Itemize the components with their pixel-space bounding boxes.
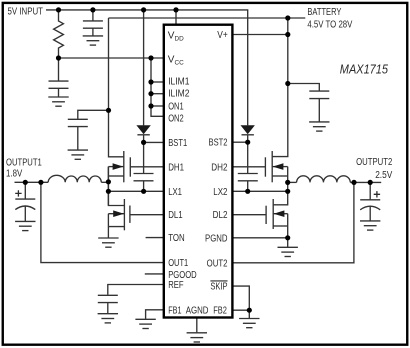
node output2/inductor junction xyxy=(285,180,290,185)
node LX1/BST1 cap junction xyxy=(141,189,146,194)
svg-text:OUT1: OUT1 xyxy=(168,258,188,269)
svg-text:4.5V TO 28V: 4.5V TO 28V xyxy=(307,19,352,30)
node LX2 junction xyxy=(285,189,290,194)
wire TON open stub xyxy=(146,237,164,239)
wire DH1 gate lead from DH1 pin xyxy=(130,166,163,168)
svg-text:DH2: DH2 xyxy=(211,162,228,173)
svg-text:LX2: LX2 xyxy=(213,187,228,198)
node 5V/diode D1 junction xyxy=(141,7,146,12)
node battery bypass C4 junction xyxy=(285,81,290,86)
wire REF pin to reference capacitor xyxy=(108,285,164,295)
wire LX2 column to inductor L2 xyxy=(288,181,297,183)
wire battery rail y=18 from DH1 drain column to battery label xyxy=(109,17,306,19)
wire DH2 gate lead from DH2 pin xyxy=(232,166,265,168)
ground (SKIP/FB2) xyxy=(239,319,259,328)
ground (output cap C7) xyxy=(360,221,380,230)
wire FB2 pin stub xyxy=(232,309,249,311)
svg-text:2.5V: 2.5V xyxy=(375,170,392,181)
svg-text:DL1: DL1 xyxy=(168,210,183,221)
svg-text:ILIM2: ILIM2 xyxy=(168,88,190,99)
svg-text:AGND: AGND xyxy=(186,306,209,317)
wire ILIM2 pin stub xyxy=(151,93,164,95)
capacitor C7 (output2, polarized) xyxy=(360,182,380,220)
wire OUT1 feedback from output node xyxy=(41,182,164,262)
node output1/inductor junction xyxy=(106,179,111,184)
node BST2 junction xyxy=(245,140,250,145)
node output2 cap junction xyxy=(368,180,373,185)
wire battery column down to DH2 drain elbow xyxy=(272,18,288,157)
wire DL1 gate lead from DL1 pin xyxy=(130,214,164,216)
diode D1 (BST1) xyxy=(136,125,150,142)
svg-text:BST1: BST1 xyxy=(168,138,187,149)
node 5V/resistor junction xyxy=(56,7,61,12)
node VCC/resistor junction xyxy=(56,55,61,60)
svg-text:ON1: ON1 xyxy=(168,102,184,113)
wire DH1 source to LX1/DL1 drain column xyxy=(107,167,109,206)
ground (output cap C6) xyxy=(15,221,35,230)
node V+ junction xyxy=(285,32,290,37)
wire BST2 pin stub xyxy=(232,141,248,143)
svg-text:ON2: ON2 xyxy=(168,114,184,125)
wire LX2 pin to switch node xyxy=(232,190,288,192)
ground (VCC bypass C2) xyxy=(48,97,68,106)
svg-text:OUT2: OUT2 xyxy=(207,258,228,269)
wire VCC from resistor bottom to VCC pin xyxy=(59,57,164,59)
node FB2/SKIP junction xyxy=(247,308,252,313)
wire FB2 node to ground xyxy=(248,310,250,318)
wire OUTPUT2 rail stub right of capacitor xyxy=(350,181,381,183)
inductor L1 xyxy=(48,175,101,182)
transistor Q4 DL2 n-channel MOSFET xyxy=(266,199,288,247)
wire V+ pin to battery column xyxy=(232,34,288,36)
capacitor C5 (REF bypass) xyxy=(98,295,118,313)
wire SKIP pin down to FB2 node xyxy=(232,286,249,310)
inductor L2 xyxy=(297,176,351,183)
wire VDD drop from 5V rail into IC top xyxy=(175,10,177,25)
svg-text:DL2: DL2 xyxy=(213,210,228,221)
svg-text:TON: TON xyxy=(168,233,185,244)
node PGND junction xyxy=(285,235,290,240)
wire inductor L1 to LX1 column xyxy=(101,181,108,183)
capacitor C4 (battery bypass right) xyxy=(288,84,330,122)
wire DL2 gate lead from DL2 pin xyxy=(232,214,266,216)
ground (battery bypass C3) xyxy=(68,150,88,159)
node BST1 junction xyxy=(141,140,146,145)
svg-text:SKIP: SKIP xyxy=(210,282,227,293)
ground (AGND) xyxy=(187,333,207,342)
ground (5V bypass C1) xyxy=(83,36,103,45)
svg-text:BATTERY: BATTERY xyxy=(307,7,341,18)
wire DH1 drain column down from battery rail xyxy=(109,18,124,157)
node battery rail junction xyxy=(285,15,290,20)
node LX2/BST2 cap junction xyxy=(245,189,250,194)
wire ILIM1 pin stub xyxy=(151,81,164,83)
arrow body diode Q1 xyxy=(113,163,124,170)
node output1 feedback junction xyxy=(38,180,43,185)
wire ON1 pin stub xyxy=(151,105,164,107)
wire PGOOD open stub xyxy=(145,273,164,275)
transistor Q2 DL1 n-channel MOSFET xyxy=(108,199,129,238)
svg-text:FB1: FB1 xyxy=(168,306,182,317)
text labels outside IC xyxy=(6,6,393,197)
capacitor C1 (5V bypass at top) xyxy=(83,10,103,36)
arrow body diode Q2 xyxy=(113,210,124,217)
svg-text:OUTPUT2: OUTPUT2 xyxy=(356,157,393,168)
wire OUTPUT1 rail with inductor L1 xyxy=(15,181,49,183)
svg-text:1.8V: 1.8V xyxy=(6,169,22,180)
capacitor C7 plus sign xyxy=(374,191,380,197)
wire BST1 pin stub xyxy=(144,141,164,143)
node ILIM2 junction xyxy=(148,91,153,96)
capacitor C3 (battery bypass left) xyxy=(68,110,109,150)
diode D2 (BST2) xyxy=(241,125,255,142)
node LX1 junction xyxy=(106,189,111,194)
svg-text:BST2: BST2 xyxy=(209,138,228,149)
capacitor C2 (VCC bypass) xyxy=(49,58,69,97)
wire ILIM/ON bus xyxy=(151,58,164,116)
wire 5V rail (top) from label to corner down to diode D1 anode xyxy=(46,10,248,126)
svg-text:V+: V+ xyxy=(217,30,228,41)
node 5V/VDD junction xyxy=(173,7,178,12)
wire PGND pin to DL2 source column xyxy=(232,237,288,239)
wire 5V rail drop to diode D1 anode xyxy=(143,10,145,126)
node battery bypass C3 junction xyxy=(106,108,111,113)
svg-text:REF: REF xyxy=(168,280,183,291)
ground (DL1 source) xyxy=(98,238,118,247)
pin labels inside IC xyxy=(168,30,228,317)
transistor Q3 DH2 n-channel MOSFET xyxy=(265,151,287,205)
node output2 feedback junction xyxy=(351,180,356,185)
wire OUT2 feedback from output node xyxy=(232,182,354,262)
ground (REF cap C5) xyxy=(98,314,118,323)
ground (PGND) xyxy=(278,247,298,256)
resistor R1 (5V to VCC) xyxy=(54,10,64,58)
svg-text:PGND: PGND xyxy=(205,233,228,244)
capacitor BST2 (from BST2 node down to LX2) xyxy=(238,142,258,191)
svg-text:MAX1715: MAX1715 xyxy=(340,61,389,76)
svg-text:DH1: DH1 xyxy=(168,162,184,173)
svg-text:OUTPUT1: OUTPUT1 xyxy=(6,158,42,169)
op-amp U1 MAX1715 IC body xyxy=(164,25,233,318)
wire FB1 pin to ground xyxy=(146,310,164,319)
svg-text:5V INPUT: 5V INPUT xyxy=(8,6,44,17)
arrow body diode Q4 xyxy=(274,210,285,217)
wire AGND pin to ground xyxy=(196,318,198,333)
arrow body diode Q3 xyxy=(273,163,284,170)
ground (FB1) xyxy=(135,319,155,328)
svg-text:FB2: FB2 xyxy=(213,306,227,317)
transistor Q1 DH1 n-channel MOSFET xyxy=(108,151,130,206)
svg-text:LX1: LX1 xyxy=(168,187,182,198)
svg-text:ILIM1: ILIM1 xyxy=(168,76,190,87)
capacitor C6 plus sign xyxy=(15,190,21,196)
node output1 cap junction xyxy=(23,180,28,185)
capacitor BST1 (from BST1 node down to LX1) xyxy=(134,142,154,191)
node 5V/C1 junction xyxy=(90,7,95,12)
ground (battery bypass C4) xyxy=(309,122,329,131)
capacitor C6 (output1, polarized) xyxy=(15,182,35,221)
wire LX1 pin to switch node xyxy=(108,190,163,192)
node ON1 junction xyxy=(148,103,153,108)
node ILIM1 junction xyxy=(148,79,153,84)
node VCC/ILIM bus junction xyxy=(148,55,153,60)
